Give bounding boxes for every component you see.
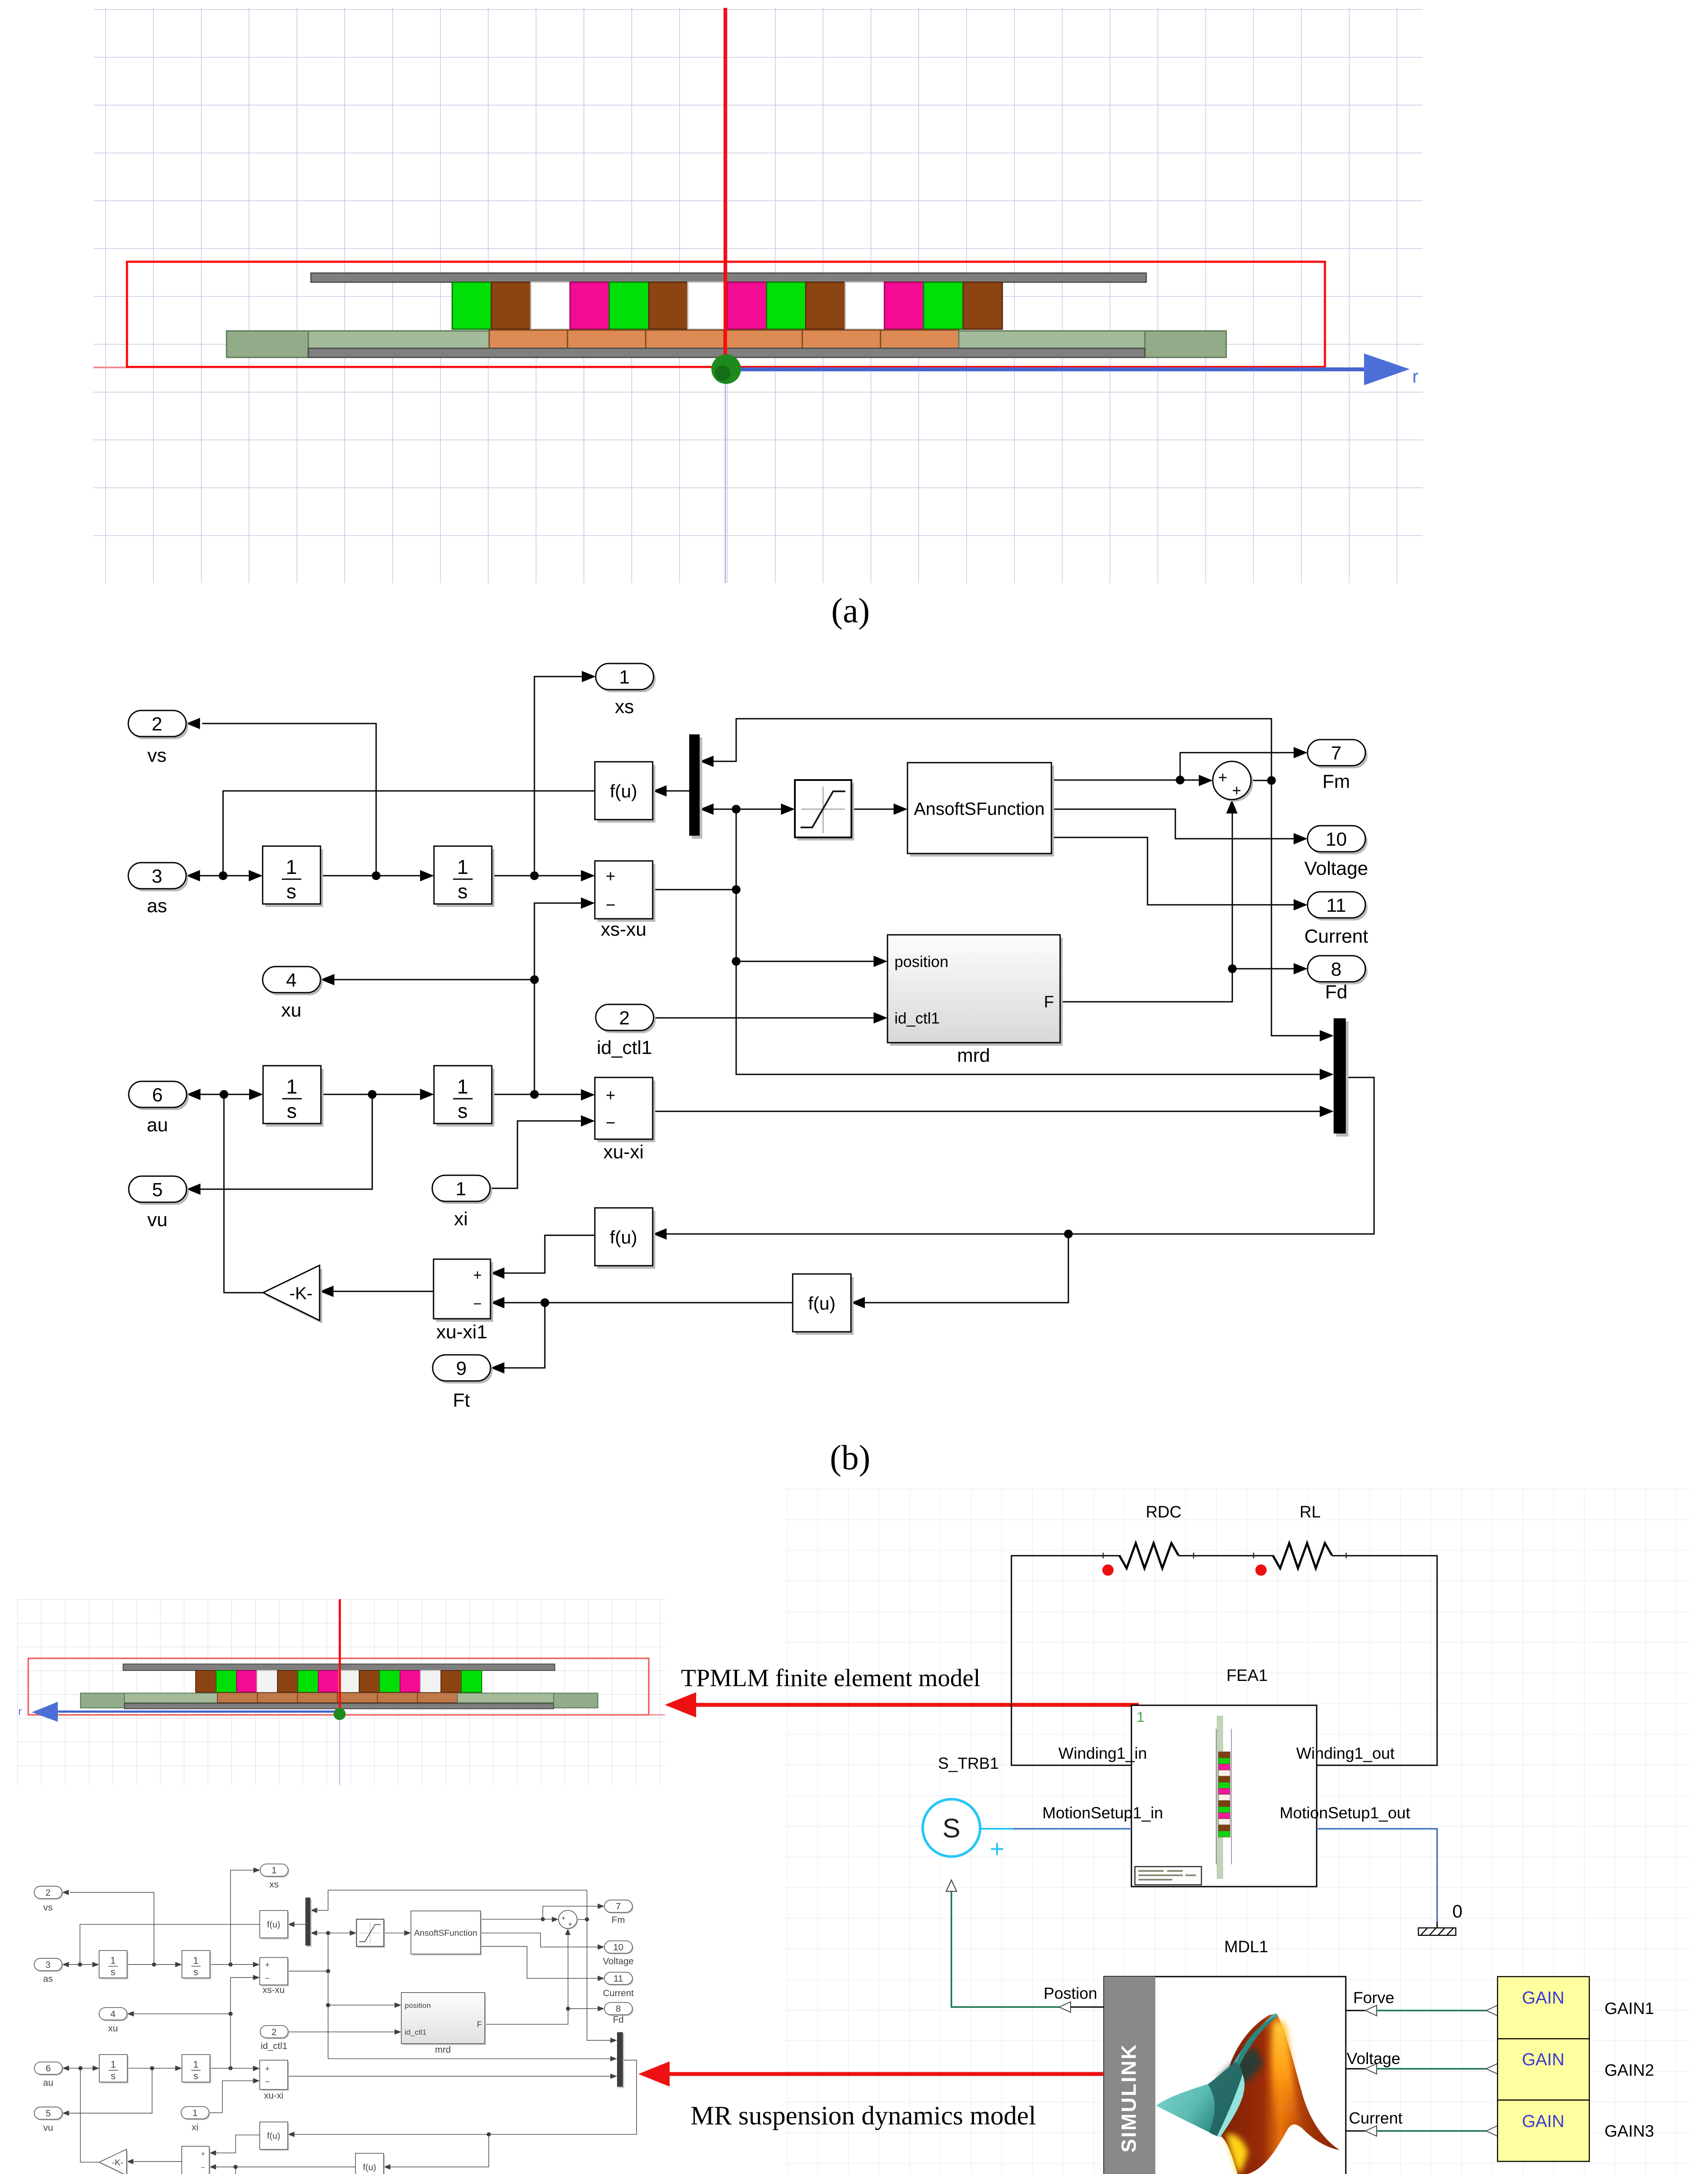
svg-text:position: position: [894, 953, 948, 970]
GAIN1 block: [1498, 1977, 1589, 2039]
svg-text:+: +: [990, 1835, 1004, 1863]
svg-text:AnsoftSFunction: AnsoftSFunction: [914, 799, 1045, 819]
svg-text:11: 11: [1326, 895, 1346, 916]
svg-text:(a): (a): [831, 592, 870, 630]
svg-text:S_TRB1: S_TRB1: [938, 1754, 999, 1772]
svg-text:f(u): f(u): [610, 781, 637, 801]
MDL1 block: [1104, 1938, 1346, 2174]
coil segments: [217, 1693, 457, 1703]
sum block xu-xi1: [434, 1259, 493, 1343]
mover back iron bottom bar: [308, 348, 1145, 357]
saturation block: [795, 780, 854, 840]
f(u) block Fcn3: [793, 1274, 854, 1335]
svg-text:−: −: [473, 1296, 482, 1312]
Ansoft out2 to port Voltage: [1051, 809, 1294, 839]
svg-text:GAIN3: GAIN3: [1605, 2122, 1654, 2141]
svg-text:+: +: [1232, 781, 1241, 799]
Ansoft out3 to port Current: [1051, 837, 1294, 905]
inport 2 id_ctl1: [596, 1004, 656, 1058]
mover right end block: [1145, 331, 1226, 357]
svg-text:MotionSetup1_out: MotionSetup1_out: [1280, 1804, 1411, 1822]
ground 0: [1418, 1901, 1462, 1935]
bottom tip glow: [1226, 2134, 1248, 2174]
svg-text:r: r: [18, 1706, 22, 1717]
svg-text:xs: xs: [615, 696, 634, 717]
magnet array: G,B,W,M repeating: [452, 282, 1002, 329]
svg-text:Current: Current: [1349, 2109, 1403, 2127]
saturation out to AnsoftSFunction: [851, 809, 894, 810]
svg-text:9: 9: [456, 1358, 467, 1379]
bright centre streak: [1272, 2021, 1298, 2126]
svg-text:MDL1: MDL1: [1224, 1938, 1268, 1956]
integrator 1/s upper-2: [434, 846, 494, 907]
xu-xi output to mux2: [653, 1111, 1320, 1112]
gain output feedback to au node: [224, 1094, 263, 1293]
grid: [93, 8, 1423, 583]
outport 8 Fd: [1308, 956, 1368, 1003]
svg-text:r: r: [1412, 366, 1418, 387]
svg-text:−: −: [606, 1114, 615, 1132]
inport 1 xi: [432, 1175, 492, 1230]
grid: [17, 1599, 665, 1785]
svg-text:S: S: [942, 1814, 960, 1844]
svg-text:1: 1: [619, 667, 630, 688]
wire xi port to xu-xi minus: [490, 1121, 581, 1188]
control pin under S_TRB1: [946, 1880, 957, 1891]
svg-text:1: 1: [456, 1178, 466, 1200]
svg-text:s: s: [458, 1100, 468, 1122]
svg-text:Postion: Postion: [1044, 1984, 1097, 2002]
magnet array mirrored: [196, 1671, 482, 1692]
svg-text:1: 1: [1137, 1709, 1144, 1725]
svg-text:s: s: [287, 1100, 297, 1122]
r axis blue arrow (pointing left): [57, 1711, 342, 1713]
xu bus vertical: [534, 903, 581, 1094]
mux2 output long feedback to f(u) blocks: [667, 1077, 1374, 1234]
svg-text:1: 1: [457, 1075, 468, 1098]
svg-text:mrd: mrd: [957, 1045, 990, 1066]
svg-text:10: 10: [1326, 829, 1347, 850]
integrator 1/s lower-2: [434, 1066, 494, 1127]
svg-text:5: 5: [152, 1179, 163, 1200]
mover left rail: [308, 331, 489, 348]
svg-text:MotionSetup1_in: MotionSetup1_in: [1042, 1804, 1163, 1822]
svg-text:4: 4: [286, 970, 297, 991]
RDC pin dot: [1102, 1564, 1114, 1576]
outport 10 Voltage: [1304, 826, 1368, 879]
svg-text:au: au: [147, 1114, 168, 1136]
z axis red line: [339, 1599, 341, 1713]
FEA1 block: [1042, 1667, 1411, 1887]
svg-text:xu-xi1: xu-xi1: [436, 1321, 487, 1343]
red arrow: MR suspension dynamics model: [638, 2061, 1103, 2131]
mover right rail: [959, 331, 1145, 348]
stator back iron top bar: [311, 273, 1146, 282]
outport 3 as: [128, 863, 188, 917]
outport 11 Current: [1304, 892, 1368, 947]
green control wire to MDL1 Postion: [951, 1891, 1059, 2007]
svg-text:RL: RL: [1300, 1503, 1321, 1521]
svg-text:+: +: [606, 1087, 615, 1105]
svg-text:+: +: [606, 867, 615, 886]
mover end blocks and rails: [80, 1693, 124, 1708]
wire int1a out to int2a, branch to vs: [320, 875, 420, 877]
f(u) block Fcn2: [595, 1208, 655, 1269]
svg-text:f(u): f(u): [610, 1227, 637, 1247]
mini Simulink model (scaled copy): [34, 1864, 637, 2174]
outport 7 Fm: [1308, 740, 1368, 792]
svg-text:MR suspension dynamics model: MR suspension dynamics model: [691, 2101, 1036, 2131]
svg-text:xi: xi: [454, 1208, 468, 1230]
svg-text:GAIN: GAIN: [1522, 1988, 1565, 2007]
RL pin dot: [1255, 1564, 1267, 1576]
coil segments: [489, 330, 959, 348]
outport 4 xu: [263, 967, 323, 1021]
teal band along ridge: [1233, 2014, 1278, 2066]
svg-text:s: s: [458, 880, 468, 903]
wing dark right portion: [1208, 2062, 1242, 2136]
resistor RL: [1273, 1543, 1332, 1568]
svg-text:6: 6: [152, 1084, 163, 1106]
svg-text:F: F: [1044, 993, 1054, 1011]
svg-text:GAIN1: GAIN1: [1605, 2000, 1654, 2018]
red arrow: TPMLM finite element model: [665, 1664, 1139, 1717]
motor strip inside FEA1: [1217, 1716, 1223, 1878]
svg-text:Ft: Ft: [453, 1390, 470, 1411]
mrd subsystem block: [887, 935, 1063, 1066]
integrator 1/s upper-1: [263, 846, 323, 907]
wire int2b out to xu-xi plus: [492, 1094, 581, 1095]
mini finite-element model (mirrored): [17, 1599, 665, 1785]
svg-text:xs-xu: xs-xu: [600, 919, 646, 940]
r axis blue line below origin: [725, 372, 726, 583]
red region outline: [127, 262, 1325, 367]
red region outline: [28, 1658, 649, 1715]
svg-text:-K-: -K-: [289, 1284, 312, 1303]
gain -K- triangle: [263, 1265, 322, 1324]
svg-text:1: 1: [286, 856, 297, 878]
sum output: feedback to mux top input and down to mux2: [1251, 780, 1271, 781]
svg-text:xu-xi: xu-xi: [604, 1141, 644, 1163]
GAIN2 block: [1498, 2039, 1589, 2100]
svg-text:Winding1_in: Winding1_in: [1058, 1744, 1147, 1762]
mover left end block: [227, 331, 308, 357]
f(u) block Fcn1: [595, 762, 655, 823]
svg-text:GAIN2: GAIN2: [1605, 2061, 1654, 2080]
MATLAB logo surface: [1156, 2014, 1340, 2174]
svg-text:Voltage: Voltage: [1304, 858, 1368, 879]
svg-text:RDC: RDC: [1146, 1503, 1181, 1521]
svg-text:+: +: [473, 1267, 482, 1284]
main orange membrane: [1211, 2014, 1340, 2174]
thumbnail legend box: [1135, 1867, 1201, 1885]
svg-text:id_ctl1: id_ctl1: [894, 1009, 940, 1027]
xs-xu output bus to saturation, mux, mrd, mux2: [653, 889, 736, 890]
svg-text:7: 7: [1331, 743, 1341, 764]
svg-text:GAIN: GAIN: [1522, 2112, 1565, 2131]
wing edge highlight: [1217, 2074, 1244, 2137]
f(u)3 output to xu-xi1 minus, branch to port Ft: [504, 1302, 793, 1304]
outport 9 Ft: [433, 1355, 493, 1411]
svg-text:−: −: [606, 896, 615, 914]
z axis red vertical line: [724, 8, 727, 369]
outport 6 au: [129, 1081, 189, 1136]
svg-text:0: 0: [1452, 1901, 1462, 1921]
sum block xs-xu: [595, 861, 655, 940]
svg-text:FEA1: FEA1: [1226, 1667, 1268, 1685]
wire int2a out to xs-xu plus, branch to port xs: [492, 875, 581, 877]
mux1 output to f(u): [667, 790, 689, 792]
mrd F output to sum bottom and port Fd: [1060, 814, 1232, 1002]
wire f(u) acceleration to as node: [223, 791, 595, 876]
svg-text:GAIN: GAIN: [1522, 2050, 1565, 2069]
svg-text:vu: vu: [147, 1209, 167, 1230]
blue faint vertical below origin: [339, 1717, 340, 1785]
svg-text:SIMULINK: SIMULINK: [1117, 2043, 1140, 2152]
svg-text:TPMLM finite element model: TPMLM finite element model: [681, 1664, 981, 1692]
svg-text:vs: vs: [147, 745, 167, 766]
r axis blue arrow: [725, 367, 1364, 371]
svg-text:xu: xu: [281, 1000, 301, 1021]
svg-text:Forve: Forve: [1353, 1989, 1394, 2007]
svg-text:2: 2: [152, 714, 162, 735]
outport 2 vs: [128, 710, 188, 766]
wire int1b out to int2b, branch to vu: [321, 1094, 420, 1095]
svg-text:as: as: [147, 895, 167, 917]
f(u)2 output to xu-xi1 plus: [504, 1235, 595, 1273]
Simplorer circuit grid: [784, 1489, 1691, 2174]
svg-text:(b): (b): [830, 1439, 870, 1477]
xu-xi1 output to gain: [334, 1291, 434, 1292]
GAIN3 block: [1498, 2100, 1589, 2161]
origin marker dot: [711, 354, 741, 384]
id_ctl1 port to mrd: [654, 1017, 874, 1019]
AnsoftSFunction block: [907, 763, 1054, 857]
sum circle: [1213, 761, 1253, 802]
stator top bar: [123, 1664, 555, 1671]
resistor RDC: [1119, 1543, 1178, 1568]
origin marker dot: [334, 1708, 346, 1720]
red axis horizontal stub: [93, 367, 128, 368]
teal wing: [1156, 2062, 1242, 2136]
wire S_TRB1 to MotionSetup1_in: [980, 1828, 1013, 1830]
dark shadow fold: [1218, 2046, 1264, 2085]
MDL1 right ports wires to GAIN blocks: [1346, 1989, 1498, 2136]
svg-text:Current: Current: [1304, 926, 1368, 947]
sum block xu-xi: [595, 1077, 655, 1163]
svg-text:id_ctl1: id_ctl1: [597, 1037, 652, 1058]
source S_TRB1: [923, 1754, 1004, 1863]
circuit loop wires: [1011, 1556, 1437, 1765]
mux2: [1334, 1018, 1348, 1137]
outport 5 vu: [129, 1176, 189, 1230]
svg-text:f(u): f(u): [808, 1293, 836, 1314]
integrator 1/s lower-1: [263, 1066, 324, 1127]
mux1: [689, 734, 702, 839]
svg-text:1: 1: [457, 856, 468, 878]
svg-text:1: 1: [286, 1075, 297, 1098]
SIMULINK banner: [1104, 1977, 1155, 2174]
svg-text:Fd: Fd: [1325, 981, 1347, 1003]
svg-text:2: 2: [619, 1007, 630, 1029]
Ansoft out1 to sum and port Fm: [1051, 780, 1199, 781]
red axis stub: [649, 1714, 665, 1716]
wire MotionSetup1_out to ground: [1317, 1829, 1437, 1922]
svg-text:Fm: Fm: [1322, 771, 1350, 792]
svg-text:+: +: [1218, 768, 1227, 786]
svg-text:8: 8: [1331, 959, 1341, 980]
svg-text:Voltage: Voltage: [1347, 2050, 1400, 2067]
svg-text:s: s: [287, 880, 297, 903]
outport 1 xs: [596, 664, 656, 717]
svg-text:3: 3: [152, 866, 162, 887]
svg-text:Winding1_out: Winding1_out: [1296, 1744, 1395, 1762]
